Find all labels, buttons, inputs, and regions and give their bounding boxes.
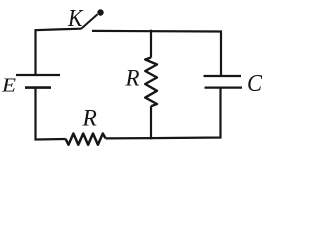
capacitor C bottom plate xyxy=(205,86,243,88)
svg-text:R: R xyxy=(82,106,97,132)
resistor R middle zigzag xyxy=(145,58,157,107)
wire: capacitor bottom to bottom-right corner and bottom wire right segment xyxy=(106,88,221,139)
svg-text:C: C xyxy=(247,71,263,97)
switch K contact dot xyxy=(97,9,103,15)
svg-text:K: K xyxy=(67,6,84,32)
wire: bottom-left segment and up to battery negative xyxy=(36,88,66,140)
wire: middle branch from top wire down to resistor xyxy=(150,30,152,58)
svg-text:R: R xyxy=(125,65,140,90)
switch K lever xyxy=(81,14,98,29)
wire: switch to top-right corner down to capacitor top xyxy=(92,31,221,76)
battery E long plate xyxy=(16,74,60,76)
resistor R bottom zigzag xyxy=(66,134,106,145)
wire: middle branch from resistor down to bottom wire xyxy=(150,106,152,139)
svg-text:E: E xyxy=(1,75,16,97)
capacitor C top plate xyxy=(204,75,242,77)
battery E short plate xyxy=(25,86,51,89)
wire: battery positive up left side and top-left segment to switch hinge xyxy=(36,29,82,75)
